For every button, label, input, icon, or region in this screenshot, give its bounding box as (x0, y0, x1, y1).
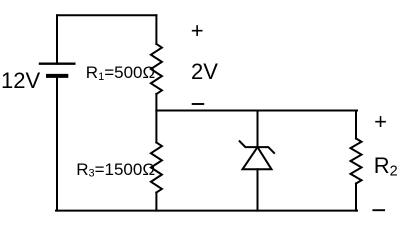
wire R3 bottom to bottom rail (155, 193, 157, 211)
svg-text:+: + (374, 109, 387, 134)
wire middle rail to R3 top (155, 111, 157, 143)
svg-text:2V: 2V (191, 59, 218, 84)
wire R1 branch top (top rail to R1) (155, 15, 157, 44)
resistor R2 zigzag (351, 139, 362, 184)
svg-text:R1=500Ω: R1=500Ω (86, 63, 155, 83)
svg-text:R3=1500Ω: R3=1500Ω (76, 160, 155, 180)
zener diode D1 triangle (anode) (243, 147, 272, 169)
svg-text:12V: 12V (1, 68, 40, 93)
svg-text:R2: R2 (374, 153, 398, 180)
label - (R2 polarity minus) (372, 209, 385, 211)
wire bottom rail (56, 210, 357, 212)
label - (2V polarity minus) (192, 103, 205, 105)
resistor R3 zigzag (151, 143, 162, 193)
svg-text:+: + (191, 18, 204, 43)
battery V1 short plate (-) (48, 74, 66, 78)
wire zener branch top (middle rail to cathode) (257, 111, 259, 148)
wire zener branch bottom (anode to bottom rail) (257, 169, 259, 210)
wire left vertical upper (battery + to top rail) (56, 15, 58, 63)
wire left vertical lower (battery - to bottom rail) (56, 76, 58, 211)
battery V1 long plate (+) (40, 63, 74, 65)
wire middle rail (node between R1,R3,zener,R2) (156, 110, 357, 112)
wire R2 bottom to bottom rail (355, 184, 357, 211)
resistor R1 zigzag (151, 44, 162, 94)
wire R1 bottom to middle rail (155, 94, 157, 111)
wire top rail (57, 14, 156, 16)
wire R2 branch top (middle rail to R2) (355, 111, 357, 139)
zener diode D1 cathode bar with bent tails (240, 141, 275, 153)
